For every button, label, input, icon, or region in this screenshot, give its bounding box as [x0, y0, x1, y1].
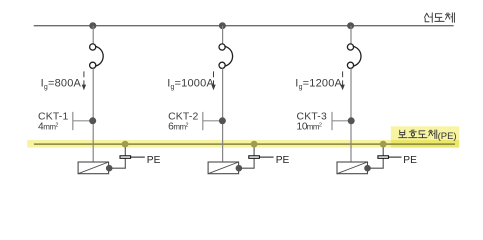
leader to PE label	[131, 156, 145, 158]
node: load box output junction	[106, 165, 113, 172]
node: PE tap junction 2	[251, 141, 258, 148]
highlight box over 보호도체(PE) label	[391, 126, 459, 140]
node: load box output junction	[364, 165, 371, 172]
wire: drop from line conductor to breaker	[350, 26, 352, 44]
svg-text:Ig=1200A: Ig=1200A	[295, 77, 342, 90]
highlight overlap under label	[391, 140, 459, 148]
svg-text:6mm2: 6mm2	[168, 122, 189, 133]
breaker CB1 (two contacts + arc)	[90, 44, 104, 69]
protective conductor PE (bottom horizontal)	[34, 143, 455, 145]
tick bar for CKT-3 leader	[331, 112, 333, 130]
wire: load to PE riser elbow	[239, 144, 254, 168]
svg-text:PE: PE	[147, 155, 161, 166]
label 선도체	[424, 13, 454, 22]
wire: breaker to load	[92, 68, 94, 162]
current direction arrow	[211, 71, 215, 90]
label 보호도체(PE)	[399, 130, 437, 139]
stub wire CKT-1 to branch	[73, 120, 93, 122]
stub wire CKT-3 to branch	[332, 120, 351, 122]
wire: load to PE riser elbow	[368, 144, 384, 168]
node: tap junction on line conductor	[347, 22, 354, 29]
current direction arrow	[340, 71, 344, 90]
node: CKT-1 junction	[89, 117, 96, 124]
load box L3	[337, 162, 368, 174]
node: tap junction on line conductor	[219, 22, 226, 29]
node: tap junction on line conductor	[89, 22, 96, 29]
breaker CB3 (two contacts + arc)	[347, 44, 361, 69]
load box L2	[208, 162, 239, 174]
svg-text:4mm2: 4mm2	[38, 122, 59, 133]
link (disconnect) symbol on PE riser	[249, 156, 260, 159]
node: CKT-3 junction	[348, 117, 355, 124]
node: load box output junction	[236, 165, 243, 172]
tick bar for CKT-2 leader	[202, 112, 204, 130]
leader to PE label	[389, 156, 402, 158]
svg-text:PE: PE	[276, 155, 290, 166]
breaker CB2 (two contacts + arc)	[219, 44, 233, 69]
load box L1	[78, 162, 109, 174]
svg-text:Ig=1000A: Ig=1000A	[167, 77, 214, 90]
stub wire CKT-2 to branch	[203, 120, 223, 122]
node: CKT-2 junction	[219, 117, 226, 124]
wire: load to PE riser elbow	[109, 144, 125, 168]
link (disconnect) symbol on PE riser	[378, 156, 389, 159]
wire: breaker to load	[350, 68, 352, 162]
svg-text:(PE): (PE)	[438, 131, 457, 142]
wire: drop from line conductor to breaker	[92, 26, 94, 44]
link (disconnect) symbol on PE riser	[120, 156, 131, 159]
current direction arrow	[82, 71, 86, 90]
svg-text:PE: PE	[403, 155, 417, 166]
highlight band over protective conductor	[27, 140, 391, 148]
line conductor (top horizontal)	[34, 25, 454, 27]
node: PE tap junction 3	[380, 141, 387, 148]
node: PE tap junction 1	[122, 141, 129, 148]
leader to PE label	[259, 156, 273, 158]
tick bar for CKT-1 leader	[72, 112, 74, 130]
wire: breaker to load	[222, 68, 224, 162]
svg-text:10mm2: 10mm2	[297, 122, 322, 133]
wire: drop from line conductor to breaker	[222, 26, 224, 44]
